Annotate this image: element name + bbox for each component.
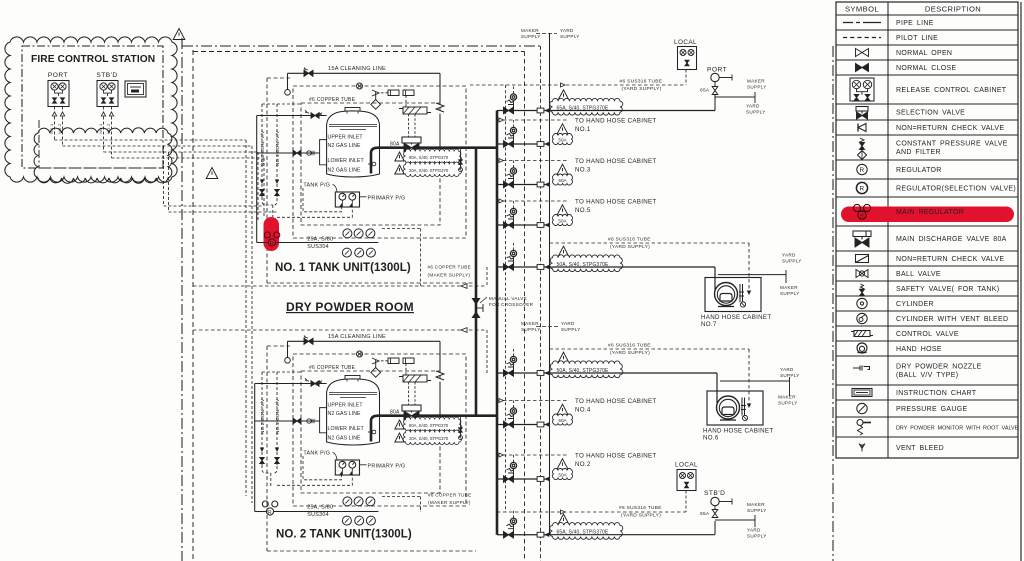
svg-text:(YARD SUPPLY): (YARD SUPPLY) (610, 350, 650, 356)
upper N2 valve assembly (307, 383, 327, 385)
legend symbol: cylinder (857, 298, 867, 308)
cloud callout 80A pipe spec (403, 417, 461, 431)
branch regulator (510, 168, 516, 174)
hose coil (717, 396, 740, 419)
legend symbol: dry powder monitor with root valve (857, 420, 863, 426)
svg-text:REGULATOR(SELECTION VALVE): REGULATOR(SELECTION VALVE) (896, 185, 1016, 192)
svg-text:DRY POWDER MONITOR WITH ROOT V: DRY POWDER MONITOR WITH ROOT VALVE (896, 425, 1019, 431)
legend symbol: ball valve (856, 270, 868, 278)
svg-text:15A CLEANING LINE: 15A CLEANING LINE (328, 334, 386, 340)
svg-text:25A, S/80: 25A, S/80 (307, 237, 333, 243)
branch arrow into yard header (544, 265, 549, 270)
svg-text:#6 COPPER TUBE: #6 COPPER TUBE (428, 493, 471, 498)
25A manifold pipe (274, 511, 379, 513)
branch closed valve (504, 141, 514, 147)
branch arrow into yard header (544, 371, 549, 376)
pilot bus vertical left of header (505, 85, 507, 512)
branch junction box (537, 265, 544, 270)
svg-text:YARD: YARD (747, 528, 761, 533)
svg-text:MAIN DISCHARGE VALVE 80A: MAIN DISCHARGE VALVE 80A (896, 236, 1007, 243)
legend symbol: main discharge valve 80A (853, 231, 871, 237)
maker supply pilot bus dashed (524, 52, 526, 561)
svg-text:R: R (270, 241, 274, 247)
dashed maker-supply link from manifold (382, 496, 421, 498)
svg-text:SUPPLY: SUPPLY (782, 259, 802, 264)
tank unit 1 (257, 66, 497, 286)
svg-text:N2 GAS LINE: N2 GAS LINE (328, 143, 362, 149)
tank outer dashed enclosure (293, 86, 466, 238)
svg-text:YARD: YARD (561, 321, 575, 326)
svg-text:SAFETY VALVE( FOR TANK): SAFETY VALVE( FOR TANK) (896, 286, 999, 293)
thick discharge pipe (371, 416, 497, 442)
cleaning line valve (304, 70, 313, 76)
hand hose cabinet NO.6 (707, 391, 763, 425)
svg-text:CONSTANT PRESSURE VALVE: CONSTANT PRESSURE VALVE (896, 141, 1008, 148)
branch closed valve (504, 107, 514, 114)
svg-text:SUPPLY: SUPPLY (521, 34, 541, 39)
tank unit 2 (255, 334, 497, 551)
drain stub right (460, 416, 462, 436)
branch pilot drop to regulator (513, 401, 515, 408)
branch closed valve (504, 370, 514, 376)
svg-text:80A, S/40, STPG370: 80A, S/40, STPG370 (409, 423, 449, 428)
svg-text:MAKER: MAKER (747, 502, 765, 507)
svg-text:(BALL V/V TYPE): (BALL V/V TYPE) (896, 372, 958, 379)
inlet bracket left (320, 408, 327, 433)
pilot into cabinet NO.7 (550, 242, 750, 244)
pilot filter diamond (371, 368, 381, 378)
legend symbol: constant pressure valve and filter (860, 138, 864, 144)
branch closed valve (504, 532, 514, 539)
svg-text:(YARD SUPPLY): (YARD SUPPLY) (621, 513, 661, 519)
svg-text:TO HAND HOSE CABINET: TO HAND HOSE CABINET (575, 453, 657, 460)
fire control station lower cloud (34, 128, 172, 183)
crossover pipe (475, 148, 478, 416)
legend symbol: vent bleed (859, 444, 865, 449)
legend symbol: selection valve (856, 107, 868, 112)
branch regulator (510, 518, 516, 524)
lower inlet nub (372, 430, 376, 434)
svg-text:NORMAL CLOSE: NORMAL CLOSE (896, 65, 956, 72)
svg-text:INSTRUCTION CHART: INSTRUCTION CHART (896, 390, 977, 397)
svg-text:PORT: PORT (707, 67, 727, 74)
svg-text:50A: 50A (558, 218, 567, 223)
svg-text:65A: 65A (700, 88, 710, 94)
legend symbols (843, 23, 881, 452)
vent circle (740, 302, 745, 307)
branch pipe (497, 372, 550, 374)
branch pipe (497, 184, 550, 186)
svg-text:50A: 50A (558, 418, 567, 423)
branch pilot drop to regulator (513, 455, 515, 462)
branch pipe (497, 424, 550, 426)
branch warning triangle (557, 404, 568, 415)
svg-text:PRIMARY P/G: PRIMARY P/G (368, 196, 406, 202)
branch arrow into yard header (544, 182, 549, 187)
right drop of cleaning line (439, 341, 441, 371)
svg-text:RELEASE CONTROL CABINET: RELEASE CONTROL CABINET (896, 87, 1007, 94)
cloud callout 20A pipe spec (403, 430, 461, 444)
svg-text:SUPPLY: SUPPLY (780, 291, 800, 296)
inlet bracket left (320, 140, 327, 165)
branch closed valve (504, 222, 514, 228)
bottom pilot sus316 (497, 511, 686, 513)
svg-text:R: R (860, 214, 864, 220)
pipe from column to cabinet NO.6 (550, 372, 718, 374)
yard supply header solid (549, 33, 551, 535)
branch warning triangle (557, 205, 568, 215)
valve actuator plate (402, 137, 421, 143)
svg-text:SUPPLY: SUPPLY (747, 534, 767, 539)
legend row: MAIN REGULATOR red highlight (841, 207, 1014, 223)
svg-text:LOCAL: LOCAL (674, 39, 697, 46)
legend table (836, 2, 1018, 458)
svg-text:DRY POWDER ROOM: DRY POWDER ROOM (286, 300, 414, 314)
top pilot sus316 (470, 84, 686, 86)
tank body (327, 111, 380, 177)
svg-text:SUPPLY: SUPPLY (560, 34, 580, 39)
svg-text:NO.1: NO.1 (575, 126, 591, 133)
cloud callout 20A pipe spec (403, 162, 461, 176)
svg-text:NO.2: NO.2 (106, 123, 111, 134)
cleaning line left drop (287, 73, 289, 89)
legend symbol: regulator (857, 164, 867, 174)
main discharge header thick (496, 111, 499, 535)
station pilot drop to tank1 regulator B (168, 152, 170, 212)
main regulator group (264, 217, 280, 251)
svg-text:R: R (860, 167, 865, 174)
branch regulator (510, 462, 516, 468)
25A manifold pipe (276, 242, 379, 244)
svg-text:FIRE CONTROL STATION: FIRE CONTROL STATION (31, 54, 155, 65)
svg-text:FOR CROSSOVER: FOR CROSSOVER (489, 302, 534, 307)
branch pilot line (497, 200, 568, 202)
tank inner dashed enclosure (301, 371, 440, 493)
branch 50A, S/40, STPG370E cloud (550, 361, 623, 378)
pilot to crossover upper arrow (193, 285, 487, 287)
cloud callout 80A pipe spec (403, 149, 461, 163)
svg-text:CYLINDER WITH VENT BLEED: CYLINDER WITH VENT BLEED (896, 316, 1008, 323)
branch pipe (497, 534, 550, 536)
branch pilot line (497, 119, 568, 121)
svg-text:NO.1: NO.1 (49, 123, 54, 134)
svg-text:NO.6: NO.6 (703, 435, 719, 442)
svg-text:AND FILTER: AND FILTER (896, 149, 941, 156)
legend symbol: pressure gauge (857, 403, 867, 413)
pipe into cabinet NO.7 (714, 267, 716, 290)
branch closed valve (504, 264, 514, 270)
yard boundary dashed left (192, 50, 194, 561)
branch pilot drop to regulator (513, 120, 515, 127)
manifold cylinder circles bottom row (342, 248, 351, 257)
svg-text:TANK P/G: TANK P/G (303, 183, 330, 189)
svg-text:VENT BLEED: VENT BLEED (896, 445, 944, 452)
lower inlet nub (372, 162, 376, 166)
svg-text:YARD: YARD (746, 104, 760, 109)
legend descriptions (896, 20, 1019, 452)
con v/v pilot pair (261, 104, 263, 197)
legend symbol: pilot line (843, 37, 881, 39)
svg-text:15A CLEANING LINE: 15A CLEANING LINE (328, 66, 386, 72)
svg-text:MAKER: MAKER (521, 321, 539, 326)
drawing border dash-dot top (182, 45, 541, 47)
branch regulator (510, 208, 516, 214)
svg-text:SUPPLY: SUPPLY (746, 110, 766, 115)
tank weld lines (329, 124, 377, 126)
branch junction box (537, 371, 544, 376)
svg-text:20A, S/40, STPG370: 20A, S/40, STPG370 (409, 168, 449, 173)
branch junction box (537, 142, 544, 147)
svg-text:NO.7: NO.7 (701, 321, 717, 328)
svg-text:NORMAL OPEN: NORMAL OPEN (896, 50, 952, 57)
pipe from column to cabinet NO.7 (550, 266, 716, 268)
branch arrow into yard header (544, 532, 549, 537)
svg-text:PIPE LINE: PIPE LINE (896, 20, 934, 27)
svg-text:NON=RETURN CHECK VALVE: NON=RETURN CHECK VALVE (896, 125, 1004, 132)
unit outer dashed boundary (266, 346, 268, 551)
legend symbol: regulator selection valve (856, 182, 867, 193)
svg-text:N2 GAS LINE: N2 GAS LINE (328, 436, 362, 442)
svg-text:TO HAND HOSE CABINET: TO HAND HOSE CABINET (575, 118, 657, 125)
svg-text:REGULATOR: REGULATOR (896, 167, 942, 174)
pilot lines below PORT cabinet (54, 107, 56, 141)
solenoid control valve (403, 375, 427, 382)
svg-text:50A: 50A (558, 178, 567, 183)
legend symbol: non-return check valve (flap) (856, 255, 869, 263)
branch pilot drop to regulator (513, 349, 515, 356)
branch junction box (537, 108, 544, 113)
svg-text:SUPPLY: SUPPLY (521, 327, 541, 332)
svg-text:NO.1 CON. V/V: NO.1 CON. V/V (275, 398, 280, 434)
svg-text:MAKER: MAKER (778, 395, 796, 400)
hose coil (715, 283, 738, 306)
branch warning triangle (557, 124, 568, 134)
svg-text:TANK P/G: TANK P/G (303, 451, 330, 457)
svg-text:TO HAND HOSE CABINET: TO HAND HOSE CABINET (575, 398, 657, 405)
svg-text:R: R (860, 186, 865, 193)
branch regulator (510, 250, 516, 256)
legend symbol: normal open valve (856, 49, 869, 57)
tank top flange (345, 376, 360, 380)
svg-text:MAKER: MAKER (521, 28, 539, 33)
branch arrow into yard header (544, 477, 549, 482)
svg-text:SUPPLY: SUPPLY (778, 401, 798, 406)
maker supply takeoff bottom right (715, 519, 755, 521)
branch pipe (497, 478, 550, 480)
top 65A pipe to PORT (550, 110, 716, 112)
svg-text:#6 COPPER TUBE: #6 COPPER TUBE (428, 265, 471, 270)
main regulator circles (264, 232, 270, 238)
tank body (327, 379, 380, 445)
svg-text:DRY POWDER NOZZLE: DRY POWDER NOZZLE (896, 364, 982, 371)
legend symbol: cylinder with vent bleed (857, 313, 867, 323)
P/G pilot dashes (303, 456, 342, 480)
svg-text:HAND HOSE: HAND HOSE (896, 346, 942, 353)
legend symbol: safety valve for tank (861, 284, 864, 290)
branch closed valve (504, 181, 514, 188)
drawing border dash-dot left (181, 38, 183, 561)
branch 65A, S/40, STPG370E cloud (550, 523, 623, 540)
main regulator circles (262, 501, 268, 507)
pilot valve squiggle (372, 90, 379, 96)
circled vent on enclosure top (357, 351, 363, 357)
svg-text:SUPPLY: SUPPLY (780, 373, 800, 378)
branch pilot line (497, 160, 568, 162)
svg-text:25A, S/80: 25A, S/80 (307, 505, 333, 511)
local pilot drop (685, 70, 687, 86)
station pilot verticals down to tanks (245, 140, 247, 496)
manifold cylinder circles top row (343, 229, 352, 238)
svg-text:NO.5: NO.5 (575, 207, 591, 214)
branch arrow into yard header (544, 142, 549, 147)
manifold cylinder circles top row (343, 497, 352, 506)
svg-text:YARD: YARD (782, 253, 796, 258)
branch warning triangle (558, 352, 569, 363)
svg-text:65A: 65A (700, 511, 710, 517)
regulator feed line (256, 116, 258, 243)
legend symbol: pipe line (843, 22, 881, 24)
pilot filter diamond (371, 100, 381, 110)
branch junction box (537, 532, 544, 537)
solenoid control valve (403, 107, 427, 114)
con v/v pilot pair (261, 372, 263, 465)
station outgoing pilot dashed wires (55, 139, 247, 141)
branch 50A cloud (552, 214, 572, 225)
svg-text:NO.4: NO.4 (575, 407, 591, 414)
svg-text:SELECTION VALVE: SELECTION VALVE (896, 109, 965, 116)
station pilot drop to tank1 regulator A (163, 146, 165, 206)
regulator feed line (254, 384, 256, 512)
legend symbol: normal close valve (856, 64, 869, 72)
page border right (1020, 2, 1022, 561)
nozzle bracket (741, 398, 743, 416)
solenoid pilot drop (405, 364, 407, 376)
svg-text:#6 SUS316 TUBE: #6 SUS316 TUBE (608, 343, 651, 349)
svg-text:NO. 1 TANK UNIT(1300L): NO. 1 TANK UNIT(1300L) (275, 262, 411, 274)
manifold cylinder circles bottom row (342, 516, 351, 525)
yard boundary dashed top (193, 51, 525, 53)
svg-text:NO.3: NO.3 (575, 167, 591, 174)
svg-text:BALL VALVE: BALL VALVE (896, 271, 941, 278)
fire control station dash-dot box (22, 46, 163, 168)
svg-text:20A, S/40, STPG370: 20A, S/40, STPG370 (409, 436, 449, 441)
tank outer dashed enclosure (293, 354, 466, 506)
lower inlet fitting (255, 420, 320, 422)
regulator circle on left drop (285, 90, 291, 96)
nozzle bracket (739, 284, 741, 302)
tank inner dashed enclosure (301, 103, 440, 225)
svg-text:TO HAND HOSE CABINET: TO HAND HOSE CABINET (575, 199, 657, 206)
pilot bus dashed (540, 46, 542, 561)
branch pilot drop to regulator (513, 161, 515, 168)
legend symbol: dry powder nozzle (853, 366, 870, 371)
warning triangle station lower right (206, 168, 218, 179)
branch 50A cloud (552, 174, 572, 185)
safety valve on right drop (436, 103, 444, 112)
svg-text:SYMBOL: SYMBOL (845, 5, 879, 14)
branch arrow into yard header (544, 223, 549, 228)
circled vent on enclosure top (357, 83, 363, 89)
branch pipe (497, 110, 550, 112)
cleaning line (288, 72, 441, 74)
unit outer dashed boundary (266, 78, 268, 283)
svg-text:PILOT LINE: PILOT LINE (896, 35, 938, 42)
pilot fittings (381, 92, 388, 94)
branch regulator (510, 408, 516, 414)
svg-text:80A, S/40, STPG370: 80A, S/40, STPG370 (409, 155, 449, 160)
svg-text:STB'D: STB'D (704, 490, 725, 497)
svg-text:PORT: PORT (48, 72, 68, 79)
svg-text:LOWER INLET: LOWER INLET (328, 426, 365, 432)
branch pilot drop to regulator (513, 243, 515, 250)
svg-text:SUS304: SUS304 (307, 244, 329, 250)
cleaning line valve (304, 338, 313, 344)
regulator circle on left drop (285, 358, 291, 364)
svg-text:50A: 50A (558, 137, 567, 142)
dashed maker-supply link from manifold (382, 228, 421, 230)
svg-text:CYLINDER: CYLINDER (896, 301, 934, 308)
svg-text:#6 SUS316 TUBE: #6 SUS316 TUBE (620, 79, 663, 85)
hand hose cabinet NO.7 (705, 278, 761, 312)
instruction chart station (125, 81, 146, 97)
branch regulator (510, 94, 516, 100)
pilot to crossover lower arrow (193, 329, 487, 331)
pipe into cabinet NO.6 (716, 373, 718, 403)
svg-text:MAIN REGULATOR: MAIN REGULATOR (896, 209, 964, 216)
svg-text:YARD: YARD (780, 367, 794, 372)
branch junction box (537, 223, 544, 228)
svg-text:NO.2: NO.2 (575, 461, 591, 468)
branch warning triangle (558, 246, 569, 257)
svg-text:NO.1: NO.1 (98, 123, 103, 134)
legend symbol: control valve (854, 331, 870, 337)
svg-text:N2 GAS LINE: N2 GAS LINE (328, 411, 362, 417)
svg-text:50A: 50A (558, 472, 567, 477)
vent circle (742, 415, 747, 420)
svg-text:MAKER: MAKER (780, 285, 798, 290)
svg-text:SUPPLY: SUPPLY (561, 327, 581, 332)
branch junction box (537, 422, 544, 427)
branch warning triangle (558, 90, 569, 100)
legend symbol: non-return check valve (858, 124, 866, 132)
svg-text:PRIMARY P/G: PRIMARY P/G (368, 464, 406, 470)
branch pilot drop to regulator (513, 201, 515, 208)
svg-text:YARD: YARD (560, 28, 574, 33)
cleaning line left drop (287, 341, 289, 357)
svg-text:#6 COPPER TUBE: #6 COPPER TUBE (309, 365, 356, 371)
branch regulator (510, 356, 516, 362)
svg-text:LOCAL: LOCAL (675, 462, 698, 469)
branch 50A cloud (552, 133, 572, 144)
valve actuator plate (402, 405, 421, 411)
branch pilot line (497, 400, 568, 402)
pilot fittings (381, 360, 388, 362)
pilot lines below STBD cabinet (103, 107, 105, 153)
svg-text:UPPER INLET: UPPER INLET (328, 135, 364, 141)
svg-text:NON=RETURN CHECK VALVE: NON=RETURN CHECK VALVE (896, 256, 1004, 263)
svg-text:CONTROL VALVE: CONTROL VALVE (896, 331, 959, 338)
con v/v merge to regulator (262, 197, 277, 205)
safety valve on right drop (436, 371, 444, 380)
svg-text:R: R (268, 510, 272, 516)
branch 50A, S/40, STPG370E cloud (550, 255, 623, 272)
branch pipe (497, 266, 550, 268)
drawing border dash-dot right (left of legend) (832, 46, 834, 561)
branch pipe (497, 224, 550, 226)
cleaning line (288, 340, 441, 342)
svg-text:MANUAL VALVE: MANUAL VALVE (489, 296, 527, 301)
svg-text:HAND HOSE CABINET: HAND HOSE CABINET (701, 314, 771, 321)
